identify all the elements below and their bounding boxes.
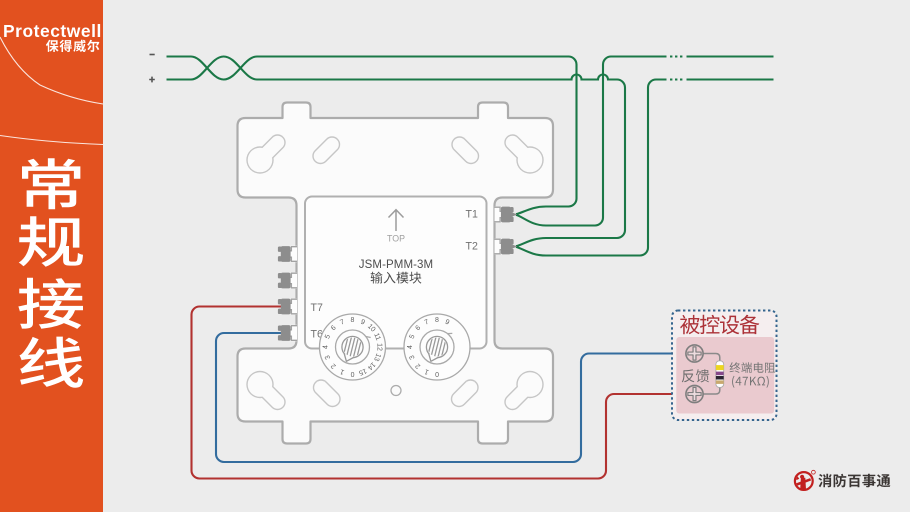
label minus <box>150 54 155 56</box>
svg-text:0: 0 <box>435 370 439 377</box>
inner pink area <box>676 337 774 414</box>
module front body <box>305 197 487 349</box>
keyhole slot bottom-left <box>246 371 273 398</box>
terminal resistor 47K <box>716 361 724 388</box>
orange sidebar panel <box>0 0 103 512</box>
terminal LT7 (left side) <box>290 298 297 314</box>
wire: plus rail (twisted pair bottom) with hops, into T2 <box>167 57 626 247</box>
keyhole slot top-left <box>246 146 273 173</box>
fire logo figure <box>796 475 811 490</box>
wire: plus rail return from T2 to next module (dashed continuation) <box>516 80 667 256</box>
rotary dial S2 <box>404 314 470 380</box>
svg-text:TOP: TOP <box>387 234 405 244</box>
wire: minus rail (twisted pair top) into T1 <box>167 57 577 215</box>
terminal T2 (right side) <box>495 238 502 254</box>
rotary dial S1 <box>320 314 386 380</box>
screw terminal top <box>686 345 703 362</box>
resistor connecting wire bottom <box>703 387 720 394</box>
svg-text:0: 0 <box>350 370 354 377</box>
terminal T1 (right side) <box>495 206 502 222</box>
label 反馈 <box>682 369 709 382</box>
keyhole slot top-right <box>516 146 543 173</box>
label plus <box>149 77 155 83</box>
module type 输入模块 <box>371 272 422 284</box>
svg-text:JSM-PMM-3M: JSM-PMM-3M <box>359 259 433 271</box>
label (47KΩ) <box>732 376 769 388</box>
fire logo ring <box>795 472 813 490</box>
vertical title 常规接线 <box>22 158 80 209</box>
capsule slot bottom-left-inner <box>321 388 333 400</box>
wire: red feedback wire from T7 to controlled device <box>192 307 686 479</box>
svg-text:T2: T2 <box>466 241 478 253</box>
wire: minus rail return from T1 to next module (dashed continuation) <box>516 57 667 226</box>
terminal L1 (left side) <box>290 246 297 262</box>
svg-text:Protectwell: Protectwell <box>3 21 102 41</box>
svg-text:4: 4 <box>323 345 330 349</box>
plate center hole <box>391 386 401 396</box>
logo chinese 保得威尔 <box>46 40 100 52</box>
capsule slot bottom-right-inner <box>459 388 471 400</box>
label 终端电阻 <box>730 362 776 373</box>
svg-text:T1: T1 <box>466 209 478 221</box>
module mounting back-plate <box>238 103 554 444</box>
sidebar decorative arc 1 <box>0 37 103 104</box>
svg-text:8: 8 <box>351 317 355 324</box>
svg-text:8: 8 <box>435 317 439 324</box>
svg-text:4: 4 <box>407 345 414 349</box>
title 被控设备 <box>680 315 700 334</box>
svg-text:T7: T7 <box>311 302 323 314</box>
terminal LT6 (left side) <box>290 325 297 341</box>
sidebar decorative arc 2 <box>0 136 103 145</box>
capsule slot top-left-inner <box>321 145 333 157</box>
svg-text:12: 12 <box>375 343 382 351</box>
terminal L2 (left side) <box>290 272 297 288</box>
controlled device dashed box 被控设备 <box>672 311 777 421</box>
TOP arrow <box>389 210 404 231</box>
wire: blue feedback wire from T6 to controlled device <box>216 333 686 462</box>
keyhole slot bottom-right <box>516 371 543 398</box>
screw terminal bottom <box>686 385 703 402</box>
logo text 消防百事通 <box>818 474 890 488</box>
resistor connecting wire top <box>703 354 720 362</box>
capsule slot top-right-inner <box>460 145 472 157</box>
logo registered mark <box>812 470 816 474</box>
